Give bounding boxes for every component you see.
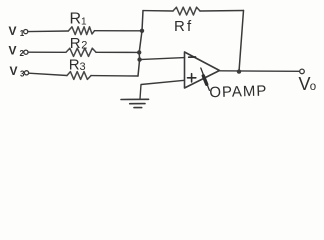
svg-text:2: 2 <box>20 49 25 58</box>
junction feedback/output <box>237 69 241 73</box>
node V2 terminal <box>24 50 28 54</box>
label Vo <box>299 74 317 94</box>
svg-text:3: 3 <box>80 61 86 73</box>
svg-text:R: R <box>174 18 185 35</box>
op-amp U1 <box>185 52 220 88</box>
wire R2 to bus <box>96 51 139 53</box>
ground <box>121 99 149 107</box>
label V2 <box>9 44 25 58</box>
label Rf <box>174 18 192 35</box>
wire Rf to feedback corner <box>200 10 244 13</box>
svg-text:V: V <box>299 74 311 94</box>
resistor Rf <box>173 7 200 15</box>
label OPAMP leader arrow <box>201 68 210 90</box>
resistor R1 <box>68 27 94 35</box>
junction R1/bus <box>140 29 144 33</box>
node V1 terminal <box>24 30 28 34</box>
svg-text:o: o <box>310 81 316 93</box>
label V3 <box>10 64 26 79</box>
wire noninverting input <box>140 80 185 99</box>
wire R3 to bus <box>91 75 138 77</box>
wire bus to Rf <box>143 10 173 12</box>
resistor R2 <box>66 48 96 56</box>
svg-text:V: V <box>10 64 18 78</box>
wire feedback vertical <box>239 11 244 72</box>
junction R2/bus <box>137 50 141 54</box>
resistor R3 <box>67 72 91 80</box>
svg-text:2: 2 <box>81 40 87 52</box>
svg-text:1: 1 <box>81 16 87 27</box>
wire op-amp output <box>220 70 300 73</box>
svg-text:V: V <box>9 24 17 38</box>
svg-text:f: f <box>187 18 192 35</box>
wire V2 to R2 <box>28 51 66 53</box>
wire R1 to bus <box>95 30 143 32</box>
junction bus/inverting <box>137 57 141 61</box>
label R1 <box>70 11 88 28</box>
wire bus vertical <box>138 11 143 76</box>
svg-text:R: R <box>70 11 82 28</box>
op-amp minus sign <box>189 56 196 58</box>
wire inverting input <box>140 58 185 60</box>
svg-text:OPAMP: OPAMP <box>209 82 268 101</box>
svg-text:3: 3 <box>20 69 25 78</box>
label V1 <box>9 24 25 38</box>
svg-text:R: R <box>70 35 81 52</box>
svg-text:1: 1 <box>20 29 25 38</box>
op-amp plus sign <box>188 74 196 82</box>
wire V3 to R3 <box>29 73 67 75</box>
node Vo terminal <box>300 69 305 74</box>
node V3 terminal <box>24 71 28 75</box>
wire V1 to R1 <box>28 30 68 33</box>
svg-text:V: V <box>9 44 17 58</box>
svg-text:R: R <box>69 56 80 73</box>
label R2 <box>70 35 88 52</box>
label R3 <box>69 56 86 73</box>
